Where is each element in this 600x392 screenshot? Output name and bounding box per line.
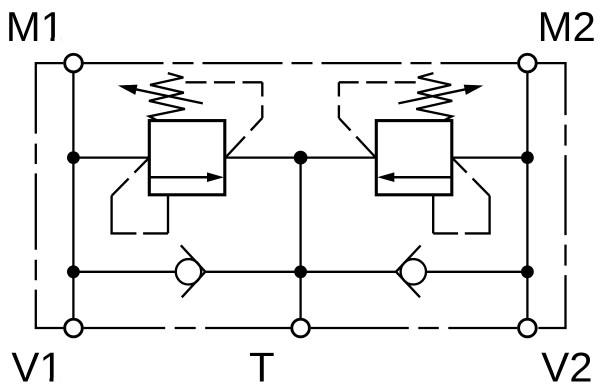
wire: left vertical M1-V1 line — [72, 63, 74, 328]
relief valve RV2 adjustment arrow — [398, 88, 470, 103]
check valve CV1 ball — [176, 259, 201, 284]
svg-text:T: T — [249, 343, 275, 390]
junction node center upper — [294, 151, 308, 165]
junction node right lower — [521, 265, 534, 278]
relief valve RV1 spring — [149, 73, 185, 120]
port T circle — [292, 319, 310, 337]
junction node left upper — [67, 151, 80, 164]
check valve CV1 seat — [181, 245, 206, 297]
relief valve RV1 flow arrow — [149, 176, 208, 179]
svg-text:V1: V1 — [11, 343, 62, 390]
relief valve RV2 body — [376, 121, 452, 195]
port M2 circle — [519, 54, 537, 72]
enclosure chain border left side — [36, 63, 64, 328]
svg-text:M2: M2 — [538, 3, 596, 50]
relief valve RV2 spring — [416, 73, 452, 120]
relief valve RV2 vent/drain loop — [452, 158, 467, 173]
junction node left lower — [67, 265, 80, 278]
enclosure chain border bottom right — [311, 327, 517, 329]
relief valve RV2 flow arrow — [393, 176, 452, 179]
check valve CV2 ball — [401, 259, 426, 284]
wire: main line left vertical to left valve — [73, 156, 149, 158]
port V1 circle — [65, 319, 83, 337]
svg-text:M1: M1 — [6, 3, 64, 50]
port V2 circle — [519, 319, 537, 337]
relief valve RV1 vent/drain loop — [135, 158, 150, 173]
wire: center vertical to T — [299, 158, 301, 328]
enclosure chain border right side — [537, 63, 565, 328]
relief valve RV1 adjustment arrow — [131, 88, 203, 103]
svg-text:V2: V2 — [541, 343, 592, 390]
wire: main line right valve to right vertical — [452, 156, 528, 158]
enclosure chain border bottom left — [84, 327, 291, 329]
wire: main line left valve to right valve through center — [225, 156, 376, 158]
junction node right upper — [521, 151, 534, 164]
wire: right vertical M2-V2 line — [526, 63, 528, 328]
wire: lower line left vertical to check valve 1 — [73, 271, 175, 273]
wire: lower line check valve 1 to check valve 2 — [205, 271, 396, 273]
check valve CV2 seat — [396, 246, 421, 298]
port M1 circle — [65, 54, 83, 72]
relief valve RV2 pilot line (dashed) — [339, 81, 416, 83]
enclosure chain border top middle — [84, 62, 518, 64]
junction node center lower — [294, 265, 307, 278]
relief valve RV1 pilot line (dashed) — [186, 81, 263, 83]
relief valve RV1 body — [149, 121, 225, 195]
wire: lower line check valve 2 to right vertical — [426, 271, 527, 273]
